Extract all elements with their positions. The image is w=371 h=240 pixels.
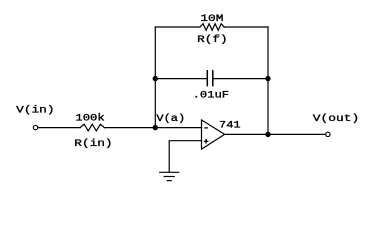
node junction dot cap left — [153, 76, 158, 81]
wire right feedback vertical — [267, 27, 269, 134]
wire capacitor branch right — [214, 78, 269, 80]
svg-text:R(f): R(f) — [197, 34, 228, 46]
op-amp U1 minus sign — [204, 127, 208, 129]
node V(out) terminal — [326, 132, 330, 136]
op-amp U1 triangle — [202, 120, 225, 149]
wire top feedback horizontal — [155, 26, 200, 28]
svg-text:V(a): V(a) — [156, 113, 185, 125]
capacitor C1 left plate — [206, 71, 208, 86]
svg-text:R(in): R(in) — [74, 138, 112, 150]
wire non-inverting input to ground — [169, 141, 201, 172]
node junction dot output — [265, 132, 270, 137]
svg-text:741: 741 — [219, 119, 241, 131]
svg-text:10M: 10M — [200, 13, 223, 25]
svg-text:100k: 100k — [75, 112, 104, 124]
svg-text:.01uF: .01uF — [193, 90, 230, 102]
node V(in) terminal — [33, 125, 37, 129]
resistor R(in) — [80, 124, 104, 131]
resistor R(f) — [200, 24, 224, 31]
op-amp U1 plus sign — [204, 139, 209, 144]
node V(a) junction dot — [153, 125, 158, 130]
node junction dot cap right — [265, 76, 270, 81]
wire capacitor branch left — [155, 78, 206, 80]
wire R(in) to op-amp inverting input — [104, 127, 201, 129]
svg-text:V(out): V(out) — [313, 113, 360, 125]
wire left feedback vertical — [154, 27, 156, 128]
wire op-amp output — [225, 133, 326, 135]
capacitor C1 right plate — [212, 71, 214, 86]
svg-text:V(in): V(in) — [16, 104, 54, 116]
wire V(in) to R(in) — [38, 127, 80, 129]
ground — [160, 171, 179, 173]
